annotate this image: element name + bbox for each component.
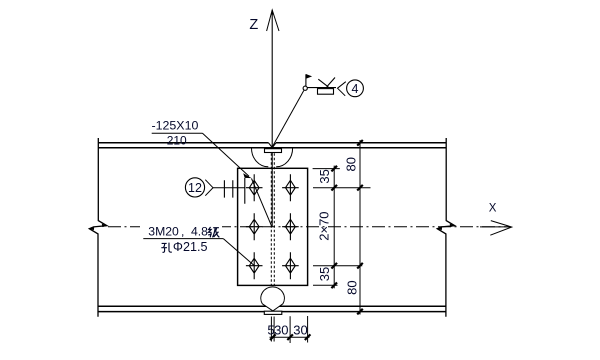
top flange top line with V weld notch [98, 143, 446, 148]
beam right break tick lower [437, 227, 442, 230]
bottom weld access hole balloon [261, 287, 285, 311]
top flange bottom line [98, 147, 446, 149]
top weld access hole arc right [276, 148, 292, 167]
bolt R3C1 [246, 252, 263, 279]
splice plate outline [238, 168, 308, 285]
svg-text:80: 80 [344, 157, 359, 171]
svg-text:X: X [489, 203, 497, 215]
weld mark 4 tail [338, 82, 346, 96]
right outer dimension line [359, 140, 361, 315]
extension line bolt row 3 [313, 265, 362, 267]
bolt R1C2 [282, 174, 299, 201]
beam left break tick lower [89, 227, 94, 230]
svg-text:,: , [181, 225, 184, 239]
plate label leader [203, 133, 250, 176]
extension line plate bottom [313, 284, 338, 286]
beam right end cut line [437, 138, 455, 317]
bolt R2C1 [246, 213, 263, 240]
bottom dim extension lines [271, 316, 307, 343]
weld mark 4 flag [306, 74, 312, 79]
weld mark 4 flag pole [305, 74, 307, 86]
right inner dimension line [333, 166, 335, 289]
X axis centerline (dash-dot) [108, 226, 511, 228]
weld mark 4 dot [303, 86, 307, 90]
bottom dim ticks [270, 334, 310, 340]
extension line bolt row 1 [313, 187, 371, 189]
plate label underline [152, 132, 203, 134]
bottom dimension line [270, 336, 310, 338]
weld mark 12 circle [185, 178, 204, 197]
weld mark 4 box symbol [318, 89, 334, 95]
svg-text:35: 35 [317, 169, 332, 183]
bolt label text line 2: hanzi kong (hole) [161, 243, 172, 253]
Z axis line [271, 10, 273, 227]
bottom flange bottom line [98, 311, 446, 313]
beam left break tick upper [102, 224, 107, 228]
svg-text:-125X10: -125X10 [152, 119, 199, 133]
svg-text:12: 12 [188, 181, 202, 195]
weld mark 4 circle [347, 80, 364, 97]
weld mark 12 ticks [224, 178, 244, 204]
svg-text:Z: Z [249, 17, 258, 33]
svg-text:30: 30 [274, 322, 288, 337]
weld mark 12 line [213, 187, 245, 189]
bottom backing bar [264, 311, 282, 314]
bottom flange top line [98, 305, 446, 307]
plate label leader arrowhead [243, 173, 251, 178]
bolt label leader [223, 239, 254, 266]
leader continuation to center [252, 179, 272, 227]
top backing bar [265, 149, 282, 153]
dimension ticks [331, 140, 362, 314]
bolt R1C1 [246, 174, 263, 201]
bolt label underline [143, 238, 223, 240]
svg-text:30: 30 [293, 322, 307, 337]
weld mark 12 arrow [205, 180, 213, 196]
bolt R3C2 [282, 252, 299, 279]
Z axis arrowhead (open) [267, 10, 279, 31]
web hidden (dashed) lines [271, 153, 274, 285]
bolt label mask [140, 224, 222, 235]
beam right break tick upper [450, 224, 455, 228]
hanzi ji (grade) [208, 227, 219, 237]
weld mark 4 reference line [307, 87, 336, 89]
svg-text:2×70: 2×70 [317, 211, 332, 240]
beam left end cut line [89, 138, 107, 317]
svg-text:4: 4 [352, 82, 359, 96]
extension line plate top [313, 168, 340, 170]
svg-text:Φ21.5: Φ21.5 [173, 240, 208, 254]
svg-text:3M20: 3M20 [148, 225, 179, 239]
svg-text:35: 35 [317, 267, 332, 281]
weld mark 4 leader [273, 91, 304, 147]
X axis arrowhead (open) [480, 221, 512, 236]
weld mark 4 V groove symbol [318, 78, 335, 87]
svg-text:4.8: 4.8 [191, 225, 208, 239]
bolt R2C2 [282, 213, 299, 240]
svg-text:80: 80 [345, 280, 360, 294]
svg-text:210: 210 [167, 134, 187, 148]
top weld access hole arc left [251, 148, 268, 167]
